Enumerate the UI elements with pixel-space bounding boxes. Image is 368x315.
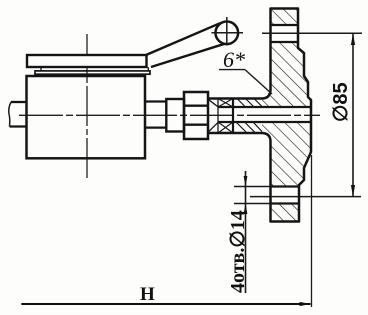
nipple cone xyxy=(208,99,218,107)
bolt hole centerline top xyxy=(262,32,362,34)
pipe wall hatch bottom xyxy=(236,122,262,133)
leader 6* xyxy=(245,70,272,94)
lever flat bar xyxy=(27,55,147,67)
gland tick right xyxy=(147,67,149,71)
valve body xyxy=(27,76,146,158)
thread cross bottom xyxy=(218,122,233,133)
bolt hole centerline bottom xyxy=(250,196,361,198)
thread cross top xyxy=(218,99,233,108)
centerline valve stem xyxy=(86,34,88,181)
pipe end line xyxy=(232,99,234,134)
nut hex flats xyxy=(184,105,208,107)
gland tick left xyxy=(40,67,42,71)
break line of inlet stub xyxy=(9,102,11,127)
inlet stub left xyxy=(10,102,27,127)
dimension H line xyxy=(21,303,310,305)
outlet stub xyxy=(145,102,166,128)
dimension d14 line xyxy=(245,171,247,293)
flange hatching xyxy=(255,0,321,232)
flange outline with pipe walls xyxy=(207,9,311,222)
svg-text:6*: 6* xyxy=(223,47,245,72)
svg-text:4отв.∅14: 4отв.∅14 xyxy=(227,210,249,293)
bolt hole top edges xyxy=(271,24,299,26)
svg-text:∅85: ∅85 xyxy=(330,82,352,122)
bonnet plate xyxy=(35,71,150,74)
union sleeve xyxy=(166,99,184,132)
pipe wall hatch top xyxy=(237,99,263,108)
nipple joint line xyxy=(217,99,219,134)
knob crosshair xyxy=(212,32,244,34)
centerline main axis xyxy=(19,114,320,116)
dimension d85 line xyxy=(352,33,354,196)
union nut xyxy=(184,92,208,139)
bolt hole bottom edges xyxy=(271,185,300,187)
dimension d14 extension lines xyxy=(234,186,271,188)
bore lines xyxy=(218,106,310,108)
dimension H extension line xyxy=(311,155,313,307)
knob xyxy=(216,22,239,45)
lever arm xyxy=(146,23,220,55)
svg-text:H: H xyxy=(140,284,155,305)
